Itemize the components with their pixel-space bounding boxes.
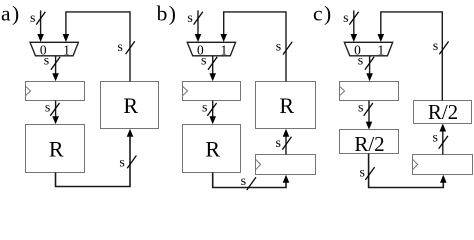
- svg-text:s: s: [202, 100, 207, 115]
- pipeline register REG2b: [256, 155, 316, 175]
- wire: R/2 (c left) output to pipeline register REG2c via bottom path: [369, 154, 447, 188]
- svg-text:R: R: [279, 93, 294, 118]
- svg-text:s: s: [45, 100, 50, 115]
- mux M2 (b): [187, 42, 235, 56]
- bus width slash + label s (b register output): [202, 100, 217, 116]
- svg-text:1: 1: [63, 42, 70, 57]
- mux M1 (a): [30, 42, 78, 56]
- bus width slash + label s (c mux output): [358, 54, 374, 70]
- bus width slash + label s (c R/2 left output): [359, 165, 374, 180]
- wire: R (b left) output to pipeline register REG2b via bottom path: [213, 173, 290, 188]
- svg-text:s: s: [358, 100, 363, 115]
- wire: input bus into mux M1 select-0 input (a): [37, 10, 44, 42]
- bus width slash + label s (c register output): [358, 100, 373, 116]
- wire: REG2c output to block R/2 (c right): [440, 124, 447, 155]
- wire: input bus into mux M3 select-0 input (c): [351, 10, 358, 42]
- svg-text:a): a): [1, 2, 21, 26]
- svg-text:R: R: [123, 93, 138, 118]
- register REG1c: [340, 82, 399, 101]
- svg-text:s: s: [432, 130, 437, 145]
- svg-text:s: s: [117, 40, 122, 55]
- svg-text:s: s: [433, 39, 438, 54]
- svg-text:s: s: [358, 54, 363, 69]
- svg-text:s: s: [276, 39, 281, 54]
- block R (a right): [101, 82, 159, 129]
- svg-text:b): b): [157, 2, 178, 26]
- svg-text:s: s: [187, 11, 192, 26]
- bus width slash + label s (c top feedback): [433, 39, 449, 54]
- wire: mux M1 output to register REG1a: [52, 56, 59, 81]
- block R (b right): [256, 82, 316, 129]
- wire: R/2 (c right) output feedback to mux M3 input 1: [378, 12, 443, 101]
- bus width slash + label s (b REG2b output): [275, 136, 291, 151]
- wire: R (a right) output feedback to mux M1 input 1: [63, 12, 130, 82]
- block R/2 (c right): [414, 100, 472, 124]
- block R (a left): [26, 125, 85, 173]
- svg-text:R: R: [49, 136, 64, 161]
- svg-text:s: s: [119, 156, 124, 171]
- svg-text:R: R: [205, 136, 220, 161]
- svg-text:1: 1: [220, 42, 227, 57]
- bus width slash + label s (a register output): [45, 100, 60, 116]
- svg-text:s: s: [343, 11, 348, 26]
- svg-text:s: s: [44, 54, 49, 69]
- block R/2 (c left): [340, 130, 399, 156]
- bus width slash + label s (c input): [343, 11, 358, 26]
- register REG1b: [183, 82, 241, 101]
- bus width slash + label s (a mux output): [44, 54, 60, 70]
- bus width slash + label s (a bottom feedback): [119, 156, 136, 171]
- wire: R (b right) output feedback to mux M2 input 1: [220, 12, 286, 82]
- bus width slash + label s (b input): [187, 11, 202, 26]
- svg-text:s: s: [30, 11, 35, 26]
- bus width slash + label s (c REG2c output): [432, 130, 447, 148]
- wire: mux M2 output to register REG1b: [209, 56, 216, 81]
- pipeline register REG2c: [413, 155, 473, 175]
- svg-text:R/2: R/2: [428, 100, 458, 124]
- wire: REG1a output to block R (a left): [52, 101, 59, 125]
- wire: mux M3 output to register REG1c: [366, 56, 373, 81]
- svg-text:R/2: R/2: [354, 132, 384, 156]
- bus width slash + label s (a input): [30, 11, 45, 26]
- wire: REG1b output to block R (b left): [209, 101, 216, 125]
- svg-text:1: 1: [378, 42, 385, 57]
- svg-text:s: s: [201, 54, 206, 69]
- wire: input bus into mux M2 select-0 input (b): [195, 10, 202, 42]
- bus width slash + label s (b bottom wire): [241, 174, 256, 190]
- wire: REG1c output to block R/2 (c left): [366, 101, 373, 130]
- bus width slash + label s (b top feedback): [276, 39, 292, 54]
- svg-text:c): c): [313, 2, 333, 26]
- register REG1a: [26, 82, 85, 101]
- wire: REG2b output to block R (b right): [283, 129, 290, 155]
- mux M3 (c): [344, 42, 392, 56]
- block R (b left): [183, 125, 241, 173]
- svg-text:s: s: [359, 165, 364, 180]
- wire: R (a left) output feeding R (a right) via bottom path: [56, 129, 134, 187]
- svg-text:s: s: [241, 174, 246, 189]
- svg-text:s: s: [275, 136, 280, 151]
- bus width slash + label s (b mux output): [201, 54, 217, 70]
- bus width slash + label s (a top feedback): [117, 40, 134, 55]
